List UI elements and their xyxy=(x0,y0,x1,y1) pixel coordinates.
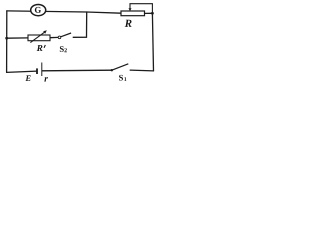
G meter circle xyxy=(31,5,46,16)
label S1 xyxy=(119,75,123,81)
wire middle branch: left vertical to rheostat xyxy=(7,37,28,39)
switch S1 xyxy=(111,64,129,72)
label R' xyxy=(37,45,43,51)
junction: slider wire joins right vertical wire xyxy=(151,12,154,15)
battery positive plate (long) xyxy=(41,63,43,77)
label S2 xyxy=(60,46,64,52)
wire right vertical xyxy=(152,13,153,71)
S1 pivot junction xyxy=(111,69,113,71)
prime mark of R′ xyxy=(44,45,45,48)
rheostat R' (box with arrow) xyxy=(28,30,50,42)
wire bottom left to battery xyxy=(7,71,37,72)
wire left vertical xyxy=(6,11,8,73)
R' resistor box xyxy=(28,35,50,41)
battery E,r xyxy=(37,63,42,77)
label E xyxy=(25,75,30,81)
wire middle: rheostat to S2 xyxy=(50,36,58,38)
slider bracket over R with arrow xyxy=(130,4,152,14)
slider arrowhead onto R xyxy=(129,8,132,11)
wire bottom right: S1 contact to right corner xyxy=(130,69,153,72)
wire: R box right end to right vertical xyxy=(145,12,153,14)
R' slider arrow xyxy=(30,32,45,43)
label G xyxy=(35,7,41,13)
junction: middle branch on left vertical wire xyxy=(5,37,8,40)
S1 blade (open) xyxy=(112,64,129,70)
wire top: left corner to resistor R xyxy=(7,11,121,13)
wire bottom: battery to switch S1 pivot xyxy=(42,69,111,72)
resistor R (box) xyxy=(121,11,145,16)
wire middle: S2 to corner and up to top wire xyxy=(73,12,87,37)
galvanometer G xyxy=(31,5,46,16)
S2 pivot circle xyxy=(58,36,61,39)
S2 blade (open) xyxy=(61,33,71,37)
battery negative plate (short) xyxy=(36,68,38,74)
switch S2 xyxy=(58,33,71,39)
label r xyxy=(44,77,48,81)
label R xyxy=(125,20,132,27)
